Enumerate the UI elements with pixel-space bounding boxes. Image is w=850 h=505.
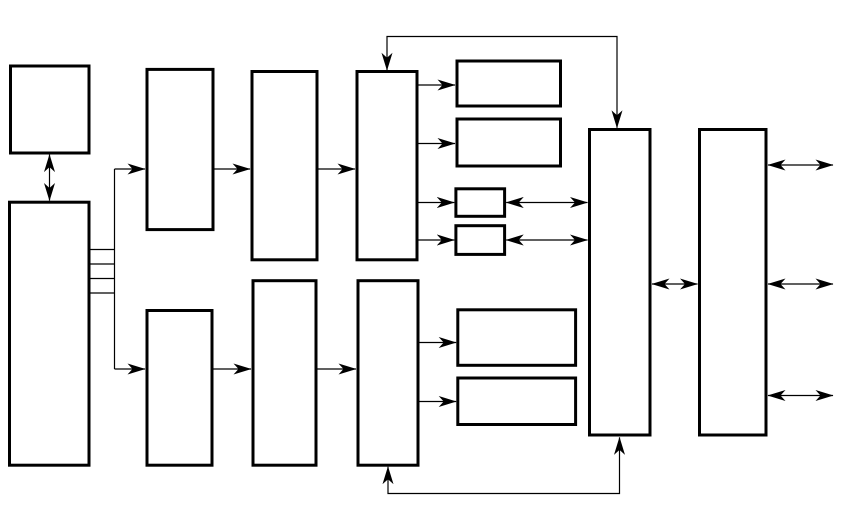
block BE lower-right wide <box>458 310 576 366</box>
block B9 right tall <box>590 130 651 436</box>
wire B8 to BF arrow <box>420 401 457 403</box>
wire B5 to BC arrow <box>419 202 455 204</box>
wire double arrow B10 right 2 <box>768 283 833 285</box>
wire double arrow B1-B2 <box>49 155 51 201</box>
wire B5 to BD arrow <box>419 239 455 241</box>
wire double arrow B10 right 3 <box>768 395 833 397</box>
wire bus line 2 <box>91 263 115 265</box>
block BA upper-right wide <box>457 61 561 106</box>
wire double arrow B9-B10 <box>652 283 698 285</box>
block B10 far right tall <box>700 130 767 436</box>
wire B5 to BA arrow <box>419 84 456 86</box>
wire B7 to B8 arrow <box>318 368 357 370</box>
wire double arrow B10 right 1 <box>768 164 833 166</box>
block BD small <box>456 226 505 255</box>
wire double arrow BC-B9 <box>506 202 587 204</box>
wire bus line 3 <box>91 278 115 280</box>
wire B3 to B4 arrow <box>215 168 251 170</box>
wire bus to B6 arrow <box>115 368 146 370</box>
block BB upper-right wide second <box>457 119 561 166</box>
wire B8 to BE arrow <box>420 342 457 344</box>
block B5 column4 upper <box>357 72 417 260</box>
wire bus vertical <box>114 169 116 369</box>
wire top feedback B5 top to B9 top <box>387 37 617 128</box>
wire bus to B3 arrow <box>115 168 146 170</box>
block BC small <box>456 189 505 217</box>
wire B6 to B7 arrow <box>214 368 252 370</box>
block B4 column3 upper <box>252 72 317 260</box>
block B8 column4 lower <box>358 281 418 466</box>
wire B5 to BB arrow <box>419 143 456 145</box>
wire bus line 1 <box>91 249 115 251</box>
wire B4 to B5 arrow <box>319 168 356 170</box>
block B2 left tall <box>10 202 90 465</box>
wire bus line 4 <box>91 292 115 294</box>
block BF lower-right wide second <box>458 378 576 425</box>
wire double arrow BD-B9 <box>506 239 587 241</box>
wire bottom feedback B8 bottom to B9 bottom <box>388 437 620 493</box>
block B7 column3 lower <box>253 281 316 466</box>
block B6 column2 lower <box>147 311 212 466</box>
block B3 column2 upper <box>147 69 213 229</box>
block B1 top-left <box>11 66 90 153</box>
